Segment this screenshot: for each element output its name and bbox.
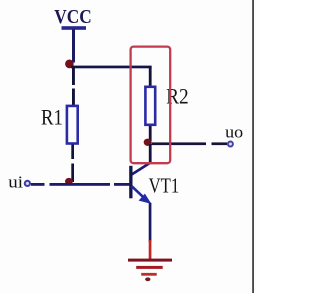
wire node B down to collector corner	[149, 144, 152, 164]
ground lead (red)	[149, 240, 152, 260]
wire node B to uo terminal	[152, 142, 207, 145]
node C junction dot (base / R1)	[65, 178, 73, 185]
transistor VT1 base bar	[129, 166, 132, 199]
svg-text:R1: R1	[41, 104, 63, 129]
wire (right segment to uo after small break)	[212, 142, 228, 145]
wire R1 bottom to node C	[71, 145, 74, 160]
wire R2 bottom to node B	[149, 126, 152, 141]
transistor VT1 emitter diagonal with arrow	[132, 186, 145, 198]
terminal ui (open circle)	[25, 181, 30, 186]
terminal uo (open circle)	[228, 142, 233, 147]
svg-text:ui: ui	[8, 173, 23, 192]
node A junction dot (VCC rail / R1 / R2 branch)	[65, 60, 74, 69]
resistor R1 body	[67, 106, 78, 144]
VCC power rail bar	[62, 26, 87, 30]
ground dot	[145, 277, 150, 281]
resistor R2 body	[145, 87, 155, 125]
wire node A to R2 branch (top horizontal)	[71, 66, 152, 69]
svg-text:uo: uo	[225, 123, 243, 142]
wire ui terminal to node C	[31, 183, 45, 186]
svg-text:VT1: VT1	[149, 174, 180, 198]
ground bar 1	[128, 259, 172, 262]
highlight box around R2 (red rectangle)	[131, 47, 171, 164]
ground bar 2	[136, 266, 163, 269]
wire node A down to R1 top	[72, 66, 75, 85]
transistor VT1 collector diagonal	[132, 163, 151, 175]
wire VCC bar to node A	[72, 30, 75, 63]
wire node C to base bar	[114, 183, 130, 186]
svg-text:VCC: VCC	[54, 7, 91, 28]
ground bar 3	[141, 273, 157, 276]
wire down to R2 top	[149, 66, 152, 87]
wire emitter down	[149, 203, 152, 242]
node B junction dot (collector / output)	[144, 139, 152, 146]
right page border line	[252, 0, 254, 293]
